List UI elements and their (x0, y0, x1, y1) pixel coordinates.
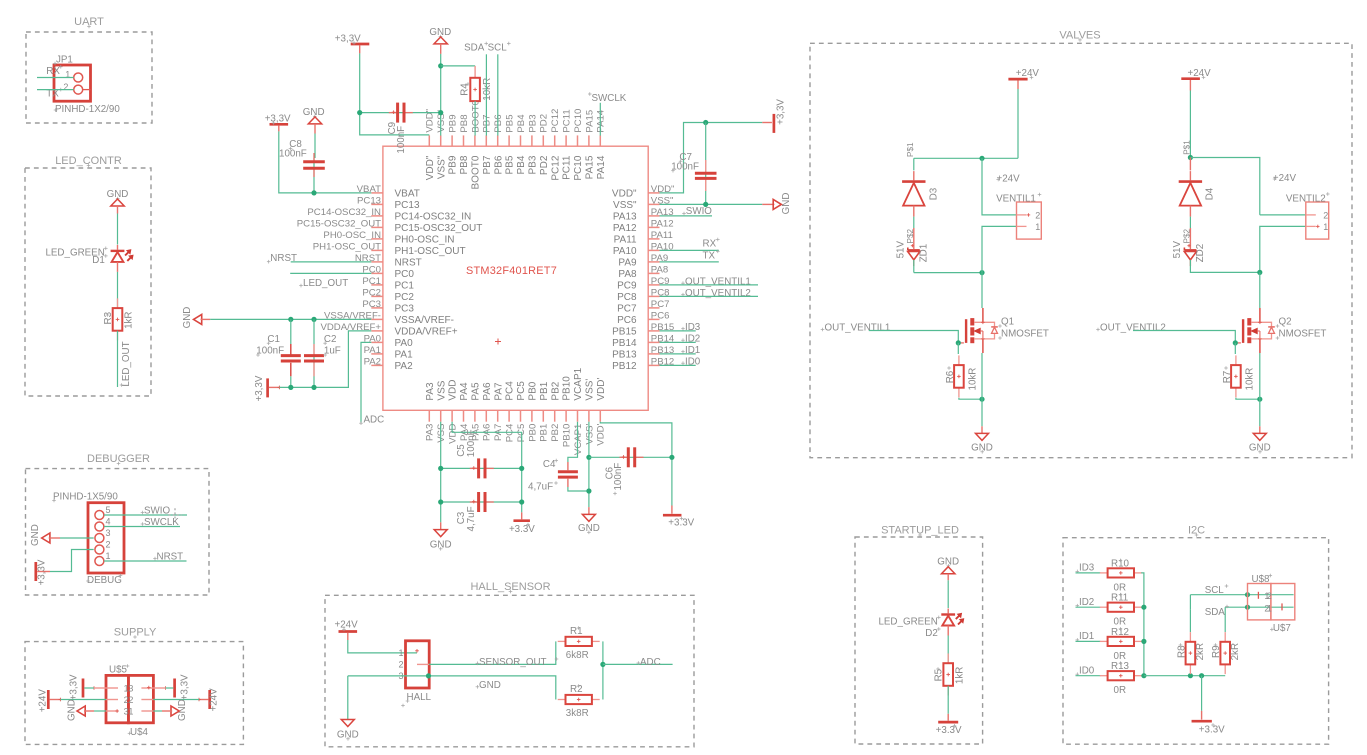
section frame HALL_SENSOR (325, 595, 694, 747)
resistor R13 0R (1100, 675, 1108, 677)
wire +24V to U$5 pin2 (60, 699, 106, 701)
wire GND to LED D1 (117, 214, 119, 245)
wire bottom horizontal to drain column (914, 272, 982, 274)
svg-text:1kR: 1kR (954, 667, 965, 684)
svg-text:R1: R1 (570, 626, 583, 637)
svg-text:2: 2 (1323, 210, 1328, 220)
svg-text:PA14: PA14 (596, 155, 607, 179)
svg-text:VBAT: VBAT (395, 189, 420, 200)
net label SWIO wire from PA13 (660, 215, 713, 217)
wire GND to LED D2 (947, 580, 949, 608)
power +3,3V left of U$5 (82, 679, 85, 698)
net label ADC hall (637, 662, 641, 664)
connector VENTIL2 box (1306, 202, 1329, 239)
svg-text:+3.3V: +3.3V (509, 524, 535, 535)
svg-text:VENTIL2: VENTIL2 (1286, 193, 1326, 204)
svg-text:ID1: ID1 (1079, 631, 1094, 642)
svg-text:ID3: ID3 (1079, 563, 1095, 574)
svg-text:PA12: PA12 (651, 219, 674, 230)
svg-text:100nF: 100nF (466, 429, 477, 457)
power +24V valve1 (1008, 78, 1027, 81)
svg-text:R12: R12 (1111, 627, 1129, 638)
zener diode ZD2 51V (1184, 249, 1196, 251)
svg-text:PC12: PC12 (550, 155, 561, 180)
svg-text:PD2: PD2 (539, 114, 550, 133)
wire source down to GND (981, 353, 983, 399)
junction dot valve1 drain node (979, 270, 984, 275)
junction dot at HALL pin3 (426, 673, 431, 678)
wire branch to R4 (441, 65, 475, 67)
power +24V valve2 (1181, 77, 1200, 80)
resistor R12 0R (1100, 640, 1108, 642)
svg-text:VDD': VDD' (596, 377, 607, 400)
svg-text:PA8: PA8 (618, 269, 637, 280)
wire VDD prime over and down to +3,3V (600, 422, 672, 506)
svg-text:3: 3 (106, 528, 111, 538)
wire VSS down to C5/C3/GND (440, 422, 442, 523)
resistor R11 0R (1100, 606, 1108, 608)
svg-text:PB13: PB13 (612, 350, 637, 361)
svg-text:PC8: PC8 (617, 292, 637, 303)
wire SCL row (1190, 594, 1293, 596)
junction dot SCL at U$8 (1245, 592, 1250, 597)
transistor Q2 NMOSFET (1242, 319, 1244, 343)
net label ID0 wire from PB12 (681, 362, 685, 364)
svg-text:DEBUG: DEBUG (87, 575, 122, 586)
svg-text:PC5: PC5 (516, 381, 527, 401)
svg-text:R8: R8 (1176, 645, 1187, 658)
svg-text:+24V: +24V (1188, 68, 1212, 79)
junction dot valve2 top (1188, 155, 1193, 160)
net label SWIO wire from pin5 (104, 514, 187, 516)
wire VDD" to +3,3V right (660, 123, 763, 193)
MCU top pins and labels (425, 100, 607, 189)
wire SDA row (1225, 606, 1293, 608)
svg-text:GND: GND (182, 307, 193, 329)
wire SENSOR_OUT from HALL pin2 to R1 (429, 641, 556, 664)
power +3,3V right of MCU (762, 122, 772, 124)
svg-text:PB12: PB12 (612, 361, 637, 372)
svg-text:PB2: PB2 (550, 381, 561, 400)
MCU bottom pins and labels (425, 367, 607, 455)
svg-text:PA2: PA2 (395, 361, 414, 372)
wire +3V3 to C9 and VDD") (360, 53, 430, 134)
net label ID3 wire from PB15 (681, 328, 685, 330)
svg-text:TX: TX (46, 89, 59, 100)
svg-text:D3: D3 (929, 187, 940, 200)
svg-text:VSS": VSS" (436, 155, 447, 179)
diode D3 (913, 158, 915, 170)
svg-text:VENTIL1: VENTIL1 (996, 194, 1036, 205)
wire U$4 pin to GND right (153, 710, 162, 712)
svg-text:2kR: 2kR (1195, 643, 1206, 660)
svg-text:PC13: PC13 (357, 196, 381, 207)
svg-text:VCAP1: VCAP1 (573, 367, 584, 400)
wire GND to U$5 pin3 (94, 710, 106, 712)
LED D1 LED_GREEN (117, 245, 119, 250)
junction dots C3 row (438, 499, 443, 504)
svg-text:PB0: PB0 (528, 381, 539, 400)
svg-text:R5: R5 (934, 668, 945, 681)
svg-text:SDA: SDA (1205, 607, 1226, 618)
section frame SUPPLY (25, 642, 243, 745)
svg-text:VCAP1: VCAP1 (573, 424, 584, 455)
wire +24V down to junction (1017, 89, 1019, 158)
net label ID2 wire from PB14 (681, 339, 685, 341)
junction dots C9 (357, 110, 362, 115)
net label ID1 wire from PB13 (681, 351, 685, 353)
wire VDD over to +3,3V column (452, 422, 522, 513)
wire VSS prime down to GND (588, 422, 590, 507)
svg-text:+3,3V: +3,3V (775, 99, 786, 125)
svg-text:PA0: PA0 (395, 338, 414, 349)
capacitor C9 100nF (360, 112, 441, 114)
svg-text:VDD: VDD (448, 424, 459, 444)
svg-text:+24V: +24V (335, 620, 359, 631)
wire VENTIL1 pin1 to drain node (982, 226, 1017, 272)
svg-text:LED_OUT: LED_OUT (121, 341, 132, 386)
svg-text:RX: RX (46, 66, 60, 77)
svg-text:2: 2 (63, 82, 68, 92)
diode D4 (1189, 158, 1191, 171)
power +3,3V below C3 right column (521, 512, 523, 519)
svg-text:SWIO: SWIO (686, 206, 713, 217)
svg-text:R4: R4 (459, 83, 470, 96)
junction dots C5 row (438, 466, 443, 471)
svg-text:VSS': VSS' (584, 423, 595, 444)
wire +3V3 to VBAT pin (279, 131, 372, 193)
svg-text:VDD": VDD" (425, 155, 436, 180)
svg-text:VDD': VDD' (596, 423, 607, 445)
svg-text:R11: R11 (1111, 593, 1128, 604)
power +3,3V below C6 (671, 506, 673, 514)
svg-text:PH0-OSC_IN: PH0-OSC_IN (395, 235, 455, 246)
ground GND right arrow (762, 203, 774, 205)
connector JP1 pin header (54, 65, 91, 101)
svg-text:NRST: NRST (157, 552, 184, 563)
svg-text:3k8R: 3k8R (566, 708, 589, 719)
svg-text:PA8: PA8 (651, 265, 668, 276)
svg-text:PC1: PC1 (395, 281, 415, 292)
net label SENSOR_OUT (476, 662, 480, 664)
connector HALL box (406, 641, 430, 688)
wire VENTIL2 pin1 down to drain node (1260, 226, 1306, 272)
junction dots bottom row (1188, 673, 1193, 678)
wire RX to JP1 pin1 (37, 77, 74, 79)
JP1 pin 1 circle (74, 73, 83, 82)
capacitor C3 4,7uF row (441, 501, 522, 503)
connector VENTIL1 box (1017, 202, 1042, 239)
wire ID bus vertical right of resistors (1141, 573, 1144, 676)
svg-text:ID2: ID2 (1079, 597, 1094, 608)
resistor R7 10kR (1234, 343, 1236, 354)
resistor R9 2kR (1224, 607, 1226, 632)
junction dot C8 at VBAT wire (311, 190, 316, 195)
svg-text:+24V: +24V (1016, 68, 1040, 79)
svg-text:JP1: JP1 (56, 54, 73, 65)
svg-text:RX: RX (703, 239, 717, 250)
wire ADC net from PA0 (361, 342, 371, 422)
svg-text:LED_GREEN: LED_GREEN (878, 616, 937, 627)
junction dots ID bus (1141, 605, 1146, 610)
svg-text:PB6: PB6 (493, 114, 504, 132)
wire R7 bottom to source column (1236, 398, 1260, 400)
junction dot SDA at U$8 (1245, 605, 1250, 610)
net label NRST wire from pin1 (104, 560, 187, 562)
wire U$4 to +24V right (153, 699, 199, 701)
svg-text:PA11: PA11 (614, 235, 637, 246)
MCU U1 STM32F401RET7 body (383, 146, 648, 410)
svg-text:PA12: PA12 (613, 223, 637, 234)
svg-text:ADC: ADC (640, 657, 661, 668)
junction dots on +3V3 wire (288, 385, 293, 390)
svg-text:R6: R6 (945, 370, 956, 383)
svg-text:OUT_VENTIL2: OUT_VENTIL2 (685, 288, 751, 299)
svg-text:D1: D1 (92, 255, 105, 266)
svg-text:+3,3V: +3,3V (69, 674, 80, 700)
svg-text:PD2: PD2 (539, 155, 550, 175)
power +3,3V startup bottom (947, 714, 949, 721)
svg-text:PB4: PB4 (516, 155, 527, 174)
ground GND below VSS column (440, 522, 442, 529)
net label OUT_VENTIL1 wire from PC9 (681, 282, 685, 284)
svg-text:+3,3V: +3,3V (265, 113, 291, 124)
svg-text:PA3: PA3 (425, 382, 436, 401)
resistor R10 0R (1100, 572, 1108, 574)
svg-text:PB10: PB10 (562, 424, 573, 447)
svg-text:P$1: P$1 (906, 142, 915, 157)
wire U$4 to +3,3V right (166, 687, 174, 689)
wire PC0 LED_OUT (290, 272, 371, 274)
junction dot source2/GND (1257, 397, 1262, 402)
wire drain node down to Q2 (1259, 272, 1261, 308)
svg-text:NRST: NRST (270, 253, 297, 264)
power +3,3V right of U$4 (173, 679, 176, 698)
svg-text:51V: 51V (1172, 241, 1183, 259)
svg-text:10kR: 10kR (482, 78, 493, 101)
svg-text:PA7: PA7 (493, 382, 504, 401)
svg-text:+24V: +24V (37, 689, 48, 713)
svg-text:P$1: P$1 (1183, 140, 1192, 155)
svg-text:1: 1 (106, 551, 111, 561)
svg-text:PB3: PB3 (528, 155, 539, 174)
wire +3V3 to VDDA/VREF+ (279, 331, 371, 388)
wire +3,3V drop from bottom row (1201, 676, 1203, 711)
svg-text:VDD: VDD (448, 379, 459, 400)
wire C4 bottom to VSS prime column (568, 487, 589, 491)
svg-text:PC4: PC4 (505, 381, 516, 401)
svg-text:+3,3V: +3,3V (335, 34, 361, 45)
svg-text:PB7: PB7 (482, 114, 493, 132)
net label ID1 wire (1076, 639, 1080, 641)
svg-text:51V: 51V (895, 241, 906, 259)
svg-text:PA11: PA11 (651, 230, 673, 241)
U$8/U$7 pin marks and numbers (1257, 592, 1259, 599)
MCU origin cross (495, 341, 501, 343)
capacitor C7 100nF (705, 123, 707, 205)
svg-text:Q1: Q1 (1001, 316, 1014, 327)
svg-text:OUT_VENTIL2: OUT_VENTIL2 (1100, 323, 1166, 334)
resistor R6 10kR (957, 343, 959, 354)
svg-text:NMOSFET: NMOSFET (1001, 328, 1049, 339)
section frame LED_CONTR (25, 168, 151, 396)
svg-text:PB5: PB5 (505, 114, 516, 132)
power +3,3V left bar (34, 562, 37, 581)
wire R6 bottom to source column (959, 398, 982, 400)
regulator U$5 box (106, 675, 128, 722)
svg-text:LED_OUT: LED_OUT (303, 278, 348, 289)
svg-text:D4: D4 (1204, 187, 1215, 200)
svg-text:R7: R7 (1222, 371, 1233, 384)
svg-text:100nF: 100nF (671, 162, 699, 173)
svg-text:PB9: PB9 (448, 114, 459, 132)
wire +24V to HALL pin1 (348, 640, 417, 653)
svg-text:2: 2 (128, 695, 133, 705)
svg-text:VSS": VSS" (613, 200, 637, 211)
svg-text:PC13: PC13 (395, 200, 420, 211)
wire zener to bottom junction (913, 260, 915, 273)
MCU left pins and labels (297, 184, 483, 372)
wire D2 to R5 (947, 636, 949, 664)
resistor R4 10kR (474, 66, 476, 78)
svg-text:VSS: VSS (436, 424, 447, 443)
svg-text:+24V: +24V (1273, 173, 1297, 184)
svg-text:3: 3 (128, 683, 133, 693)
svg-text:1: 1 (128, 706, 133, 716)
svg-text:PC2: PC2 (395, 292, 415, 303)
wire GND row from left column to R2 (348, 676, 556, 700)
svg-text:PA9: PA9 (618, 258, 637, 269)
wire +3,3V to U$5 pin1 (84, 687, 94, 689)
svg-text:PB3: PB3 (527, 114, 538, 132)
svg-text:SWIO: SWIO (144, 505, 171, 516)
power +24V hall (339, 630, 358, 633)
svg-text:PB1: PB1 (539, 381, 550, 400)
svg-text:ID0: ID0 (1079, 665, 1095, 676)
svg-text:PC6: PC6 (651, 311, 670, 322)
svg-text:6k8R: 6k8R (566, 650, 589, 661)
connector U$7 box (1271, 584, 1295, 620)
net label ID0 wire (1076, 673, 1080, 675)
svg-text:4: 4 (106, 516, 111, 526)
wire VSS" ground net (660, 203, 763, 205)
wire VSSA/VREF- ground net (210, 318, 371, 320)
wire ID0 row to R8/R9 bottoms (1144, 675, 1225, 677)
svg-text:PA13: PA13 (613, 212, 637, 223)
junction dot C7 top (703, 120, 708, 125)
svg-text:VDDA/VREF+: VDDA/VREF+ (395, 327, 458, 338)
svg-text:PC9: PC9 (617, 281, 637, 292)
svg-text:PC1: PC1 (362, 276, 381, 287)
svg-text:TX: TX (703, 250, 716, 261)
wire junction to VENTIL2 column (1190, 158, 1259, 215)
svg-text:100nF: 100nF (279, 149, 307, 160)
svg-text:PA4: PA4 (459, 382, 470, 401)
svg-text:PC11: PC11 (562, 109, 573, 132)
svg-text:VSS: VSS (436, 380, 447, 400)
svg-text:PH1-OSC_OUT: PH1-OSC_OUT (313, 242, 381, 253)
svg-text:SCL: SCL (488, 43, 508, 54)
svg-text:C4: C4 (543, 459, 556, 470)
wire VENTIL2 pin2 (1260, 214, 1306, 216)
capacitor C2 1uF (313, 319, 315, 387)
svg-text:10kR: 10kR (1245, 368, 1256, 391)
resistor R3 1kR (117, 298, 119, 308)
capacitor C4 4,7uF (567, 462, 569, 470)
ground GND hall bottom (341, 720, 354, 727)
transistor Q1 NMOSFET (965, 319, 967, 343)
svg-text:100nF: 100nF (613, 463, 624, 491)
zener diode ZD1 51V (908, 249, 920, 251)
net label SWCLK wire to PA14 (588, 93, 592, 95)
junction dot gate/R6 (956, 340, 961, 345)
svg-text:VSSA/VREF-: VSSA/VREF- (395, 315, 454, 326)
section frame STARTUP_LED (855, 537, 983, 744)
svg-text:PC7: PC7 (651, 299, 670, 310)
svg-text:2kR: 2kR (1230, 643, 1241, 660)
svg-text:NRST: NRST (395, 258, 422, 269)
net label ID2 wire (1076, 605, 1080, 607)
svg-text:PC10: PC10 (573, 155, 584, 180)
wire R3 to LED_OUT dangling end (117, 331, 119, 387)
regulator U$4 box (128, 675, 153, 722)
ground GND valve1 (981, 426, 983, 433)
wire GND to pin3 (60, 537, 94, 539)
svg-text:HALL: HALL (407, 692, 432, 703)
svg-text:2: 2 (398, 660, 403, 670)
svg-text:PC15-OSC32_OUT: PC15-OSC32_OUT (395, 223, 483, 234)
svg-text:OUT_VENTIL1: OUT_VENTIL1 (685, 276, 751, 287)
svg-text:+24V: +24V (997, 174, 1021, 185)
net label GND on hall wire (476, 686, 480, 688)
svg-text:PC7: PC7 (617, 304, 637, 315)
junction dots VSS prime (586, 455, 591, 460)
svg-text:1kR: 1kR (124, 311, 135, 328)
svg-text:PC6: PC6 (617, 315, 637, 326)
svg-text:U$7: U$7 (1273, 623, 1291, 634)
ground GND below VSS prime (588, 507, 590, 514)
svg-text:PH0-OSC_IN: PH0-OSC_IN (323, 230, 381, 241)
supply pin rows inner red lines (106, 687, 118, 689)
svg-text:PA1: PA1 (364, 345, 381, 356)
section frame DEBUGGER (26, 469, 210, 595)
svg-text:GND: GND (781, 193, 792, 215)
power +3,3V top-left (351, 43, 370, 46)
connector DEBUG pin header PINHD-1X5/90 (88, 503, 124, 573)
svg-text:10kR: 10kR (968, 368, 979, 391)
power +3,3V left of C8 (270, 123, 289, 126)
svg-text:PC11: PC11 (562, 155, 573, 180)
svg-text:100nF: 100nF (256, 346, 284, 357)
dotted cross marker right of SWIO (169, 514, 182, 516)
resistor R2 3k8R (558, 699, 566, 701)
junction dot gate/R7 (1233, 340, 1238, 345)
svg-text:+3,3V: +3,3V (179, 674, 190, 700)
LED D2 LED_GREEN (947, 609, 949, 614)
net label LED_OUT at PC0 (299, 285, 303, 287)
svg-text:SDA: SDA (464, 43, 485, 54)
svg-text:PINHD-1X5/90: PINHD-1X5/90 (53, 491, 118, 502)
svg-text:PC14-OSC32_IN: PC14-OSC32_IN (307, 207, 381, 218)
junction dots C1 C2 top (288, 317, 293, 322)
power +24V far right (208, 690, 211, 709)
svg-text:PB9: PB9 (448, 155, 459, 174)
wire drain node down to Q1 (981, 273, 983, 308)
wire GND net down to VSS" (440, 54, 442, 136)
svg-text:0R: 0R (1114, 685, 1127, 696)
svg-text:ZD2: ZD2 (1195, 244, 1206, 263)
net label NRST wire (267, 261, 271, 263)
